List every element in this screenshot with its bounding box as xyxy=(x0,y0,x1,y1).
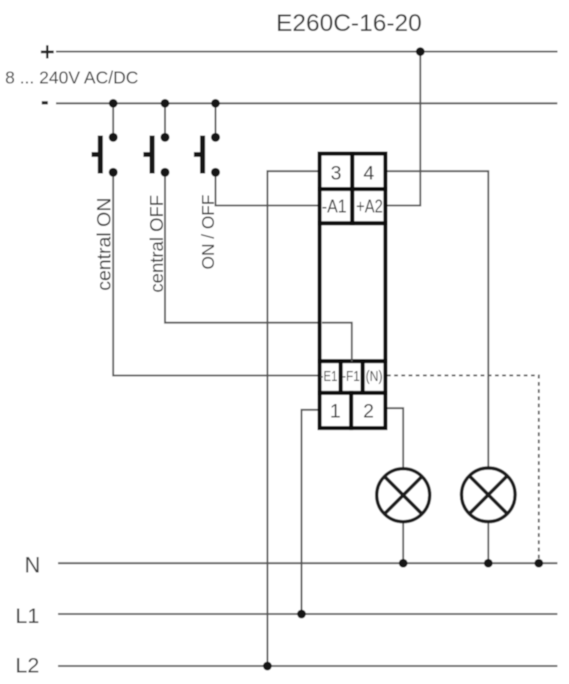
svg-text:central OFF: central OFF xyxy=(146,195,167,293)
svg-text:E260C-16-20: E260C-16-20 xyxy=(276,10,422,37)
svg-text:(N): (N) xyxy=(366,369,383,385)
svg-text:ON / OFF: ON / OFF xyxy=(198,195,218,270)
svg-text:8 ... 240V AC/DC: 8 ... 240V AC/DC xyxy=(5,68,138,88)
svg-text:3: 3 xyxy=(331,162,342,184)
svg-text:central ON: central ON xyxy=(94,198,116,291)
svg-text:L1: L1 xyxy=(15,604,39,628)
svg-text:-E1: -E1 xyxy=(320,369,338,385)
svg-text:+A2: +A2 xyxy=(356,197,383,217)
svg-text:L2: L2 xyxy=(15,653,39,677)
svg-text:N: N xyxy=(25,553,41,578)
svg-text:2: 2 xyxy=(363,400,374,422)
svg-text:-F1: -F1 xyxy=(342,369,360,385)
svg-text:1: 1 xyxy=(330,400,341,422)
svg-text:-A1: -A1 xyxy=(322,197,347,217)
svg-text:4: 4 xyxy=(363,162,374,184)
